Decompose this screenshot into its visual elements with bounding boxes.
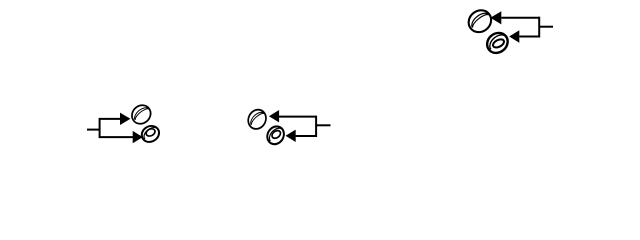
wire upper branch	[279, 116, 316, 118]
wire lower branch	[519, 36, 539, 38]
arrowhead upper (points left)	[269, 110, 279, 122]
ring node A3	[464, 6, 495, 37]
wire vertical	[315, 116, 317, 137]
arrowhead lower (points left)	[286, 130, 296, 142]
arrowhead upper (points right)	[120, 113, 130, 125]
wire vertical	[99, 118, 101, 138]
ring node B2	[264, 123, 287, 148]
wire stub left	[87, 129, 100, 131]
wire stub right	[316, 124, 330, 126]
wire upper branch	[501, 17, 539, 19]
wire vertical	[538, 17, 540, 38]
ring node B3	[483, 29, 512, 57]
ring node A1	[128, 101, 154, 127]
arrowhead lower (points left)	[509, 30, 519, 43]
ring node A2	[245, 106, 270, 133]
wire lower branch	[100, 136, 133, 138]
arrowhead upper (points left)	[490, 11, 501, 24]
wire upper branch	[100, 118, 121, 120]
wire lower branch	[296, 135, 317, 137]
arrowhead lower (points right)	[133, 131, 143, 143]
wire stub right	[539, 26, 553, 28]
ring node B1	[138, 123, 162, 146]
